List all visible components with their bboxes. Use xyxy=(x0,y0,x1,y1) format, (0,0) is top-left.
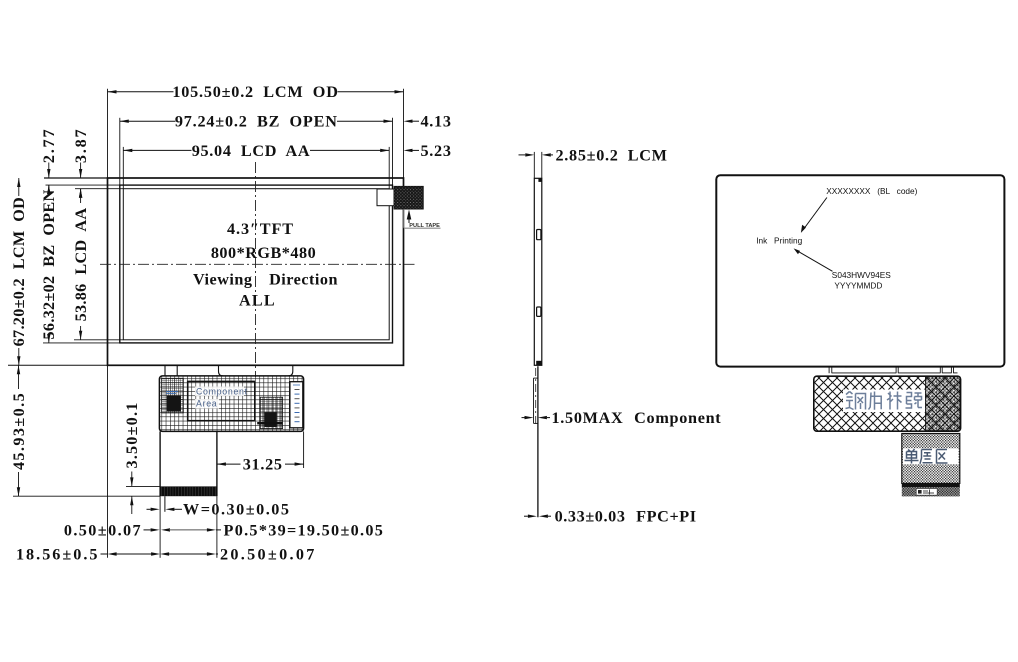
svg-text:95.04 LCD AA: 95.04 LCD AA xyxy=(192,142,311,160)
svg-text:2.85±0.2 LCM: 2.85±0.2 LCM xyxy=(556,146,668,164)
svg-text:53.86 LCD AA: 53.86 LCD AA xyxy=(72,208,90,322)
svg-text:20.50±0.07: 20.50±0.07 xyxy=(220,545,317,563)
dimension 45.93±0.5 (vertical) xyxy=(18,365,20,389)
dimension 97.24±0.2 BZ OPEN xyxy=(120,120,176,122)
dimension 1.50MAX Component xyxy=(522,417,525,419)
left dense component blob xyxy=(162,378,184,413)
pull tape leader line xyxy=(403,209,405,228)
side view bar outline xyxy=(534,178,542,365)
extension lines bottom xyxy=(107,365,109,558)
svg-text:18.56±0.5: 18.56±0.5 xyxy=(16,545,100,563)
svg-text:PULL TAPE: PULL TAPE xyxy=(409,223,440,229)
side view component 2 xyxy=(537,307,541,316)
dimension 31.25 xyxy=(217,463,241,465)
pull tape arrow xyxy=(407,210,412,220)
dimension 0.33±0.03 FPC+PI xyxy=(524,515,528,517)
svg-text:97.24±0.2 BZ OPEN: 97.24±0.2 BZ OPEN xyxy=(175,113,338,131)
dense hatch column xyxy=(925,377,959,431)
reference line band top xyxy=(126,485,160,487)
LCM bottom edge extension left xyxy=(8,364,108,366)
leader arrow BL code xyxy=(803,198,827,231)
svg-text:XXXXXXXX (BL code): XXXXXXXX (BL code) xyxy=(826,186,917,196)
svg-text:3.50±0.1: 3.50±0.1 xyxy=(123,401,141,468)
svg-text:Viewing Direction: Viewing Direction xyxy=(193,270,338,288)
FPC tail edges xyxy=(159,431,161,496)
pull tape white attach rect xyxy=(377,189,394,206)
LCM top edge extension left xyxy=(44,177,108,179)
side view component 1 xyxy=(537,230,541,240)
svg-text:Ink Printing: Ink Printing xyxy=(756,236,802,246)
dimension 67.20±0.2 LCM OD (vertical) xyxy=(18,178,20,196)
dimension 2.85±0.2 LCM xyxy=(533,152,535,178)
svg-text:105.50±0.2 LCM OD: 105.50±0.2 LCM OD xyxy=(172,83,338,101)
side view FPC line xyxy=(537,366,539,517)
front view LCM outer outline xyxy=(108,178,404,365)
svg-text:S043HWV94ES: S043HWV94ES xyxy=(832,270,891,280)
svg-text:56.32±02 BZ OPEN: 56.32±02 BZ OPEN xyxy=(40,190,58,340)
钢片补强 text (drawn) xyxy=(846,392,923,410)
svg-text:0.50±0.07: 0.50±0.07 xyxy=(64,521,142,539)
side view component envelope xyxy=(533,378,535,423)
side view bottom tick xyxy=(536,361,541,366)
right connector strip xyxy=(290,382,303,428)
svg-text:ALL: ALL xyxy=(239,292,276,310)
vertical centerline xyxy=(255,162,257,377)
horizontal centerline xyxy=(100,263,415,265)
dimension 105.50±0.2 LCM OD xyxy=(108,91,174,93)
dimension 5.23 xyxy=(404,149,413,152)
single layer zone block xyxy=(902,434,960,484)
svg-text:4.3″TFT: 4.3″TFT xyxy=(227,220,294,238)
AA bottom edge extension left xyxy=(74,339,123,341)
side view centerline xyxy=(535,368,537,427)
BZ bottom edge extension left xyxy=(43,342,120,344)
dimension 2.77 xyxy=(48,163,50,178)
dimension 56.32±02 BZ OPEN (vertical) xyxy=(48,185,50,196)
FPC stubs below back view xyxy=(828,367,830,374)
svg-text:W=0.30±0.05: W=0.30±0.05 xyxy=(183,501,290,519)
FPC contact black band xyxy=(160,486,217,496)
back view outline xyxy=(716,175,1004,366)
svg-text:YYYYMMDD: YYYYMMDD xyxy=(834,280,882,290)
pull tape crosshatch tape xyxy=(394,186,423,209)
dimension 4.13 xyxy=(404,120,413,123)
LCD active area rect xyxy=(123,189,389,340)
svg-text:Area: Area xyxy=(196,398,217,408)
svg-text:31.25: 31.25 xyxy=(243,456,283,474)
BZ top edge extension left xyxy=(46,184,120,186)
dark hatch band xyxy=(902,487,960,496)
svg-text:0.33±0.03 FPC+PI: 0.33±0.03 FPC+PI xyxy=(555,508,697,526)
svg-text:Component: Component xyxy=(196,386,248,396)
stiffener text halo xyxy=(843,390,925,413)
svg-text:2.77: 2.77 xyxy=(40,128,58,164)
AA top edge extension left xyxy=(75,188,123,190)
stiffener plate crosshatch xyxy=(814,376,961,431)
bezel open rect xyxy=(120,185,393,343)
svg-text:1.50MAX Component: 1.50MAX Component xyxy=(552,409,722,427)
dimension 3.50±0.1 (vertical) xyxy=(131,472,133,487)
svg-text:45.93±0.5: 45.93±0.5 xyxy=(10,392,28,470)
finger line xyxy=(164,496,166,512)
leader arrow S043 xyxy=(796,250,832,271)
extension lines top xyxy=(107,89,109,178)
component area box with grid hatch xyxy=(159,376,303,432)
black separator band xyxy=(902,483,960,487)
reference line band bottom / FPC tip xyxy=(13,495,160,497)
单层区 text (drawn) xyxy=(905,449,948,464)
side view top tick xyxy=(538,178,541,182)
FPC neck tabs xyxy=(164,365,166,376)
component area inner box xyxy=(188,381,255,420)
svg-text:P0.5*39=19.50±0.05: P0.5*39=19.50±0.05 xyxy=(224,521,385,539)
dimension W=0.30±0.05 xyxy=(147,508,151,510)
small white label in dark band xyxy=(916,489,937,496)
svg-text:4.13: 4.13 xyxy=(421,113,452,131)
svg-text:800*RGB*480: 800*RGB*480 xyxy=(211,244,316,262)
dimension 3.87 xyxy=(80,163,82,178)
right dense component blob xyxy=(260,397,283,428)
dimension 53.86 LCD AA (vertical) xyxy=(80,189,82,203)
svg-text:67.20±0.2 LCM OD: 67.20±0.2 LCM OD xyxy=(10,197,28,346)
svg-text:3.87: 3.87 xyxy=(72,128,90,164)
svg-text:5.23: 5.23 xyxy=(421,142,452,160)
dimension 95.04 LCD AA xyxy=(123,149,191,151)
